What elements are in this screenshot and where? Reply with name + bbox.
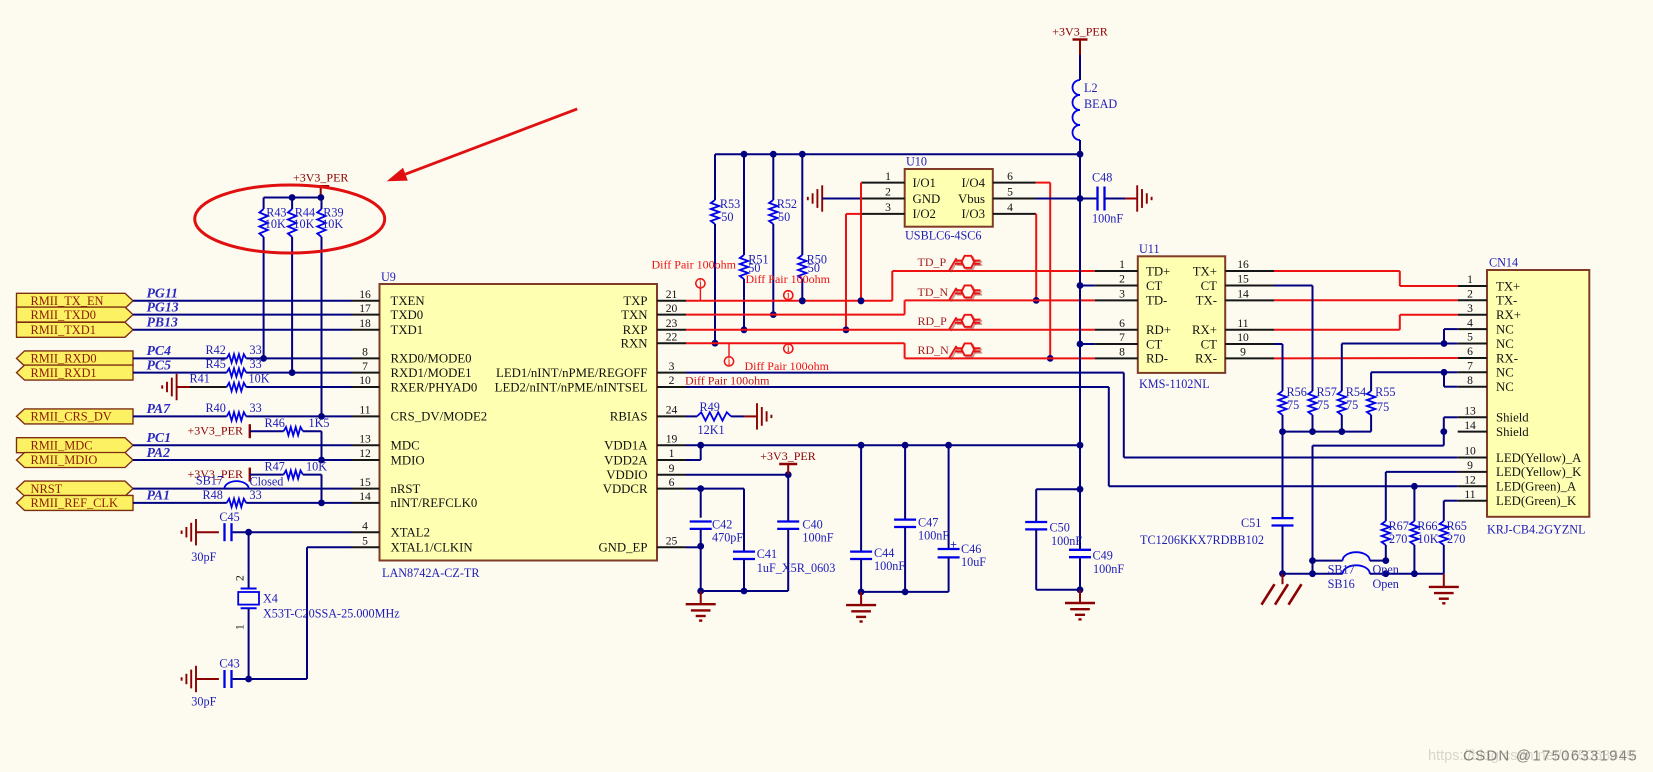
svg-text:3: 3 xyxy=(1467,302,1473,315)
svg-text:VDDIO: VDDIO xyxy=(606,468,647,482)
svg-text:C50: C50 xyxy=(1050,521,1070,535)
svg-text:11: 11 xyxy=(1237,317,1248,330)
svg-text:1: 1 xyxy=(885,170,891,183)
svg-text:33: 33 xyxy=(250,488,262,502)
svg-text:18: 18 xyxy=(359,317,371,330)
svg-text:1: 1 xyxy=(234,624,247,630)
svg-text:SB17: SB17 xyxy=(1328,563,1355,577)
svg-text:30pF: 30pF xyxy=(191,695,216,709)
svg-text:75: 75 xyxy=(1377,400,1389,414)
svg-text:PC4: PC4 xyxy=(147,343,172,358)
svg-text:R55: R55 xyxy=(1375,385,1395,399)
svg-text:C45: C45 xyxy=(219,510,239,524)
svg-text:C49: C49 xyxy=(1093,549,1113,563)
svg-text:XTAL2: XTAL2 xyxy=(391,526,431,540)
svg-text:Shield: Shield xyxy=(1496,411,1529,425)
svg-text:4: 4 xyxy=(362,519,368,532)
svg-text:24: 24 xyxy=(666,404,678,417)
svg-text:NC: NC xyxy=(1496,322,1514,336)
svg-text:nRST: nRST xyxy=(391,482,421,496)
svg-text:RMII_TXD1: RMII_TXD1 xyxy=(31,323,96,337)
svg-text:C48: C48 xyxy=(1092,171,1112,185)
svg-text:7: 7 xyxy=(1119,331,1125,344)
svg-text:TXP: TXP xyxy=(623,294,647,308)
svg-text:21: 21 xyxy=(666,288,678,301)
svg-text:100nF: 100nF xyxy=(1092,212,1123,226)
svg-text:4: 4 xyxy=(1007,201,1013,214)
svg-text:NC: NC xyxy=(1496,337,1514,351)
svg-text:RD_N: RD_N xyxy=(918,343,950,357)
svg-text:TD_N: TD_N xyxy=(918,285,949,299)
svg-text:4: 4 xyxy=(1467,316,1473,329)
svg-text:R67: R67 xyxy=(1389,519,1409,533)
svg-text:VDD2A: VDD2A xyxy=(604,453,648,467)
svg-text:1uF_X5R_0603: 1uF_X5R_0603 xyxy=(757,561,836,575)
svg-text:U11: U11 xyxy=(1139,242,1160,256)
svg-text:22: 22 xyxy=(666,330,678,343)
svg-text:C46: C46 xyxy=(961,542,981,556)
svg-text:12K1: 12K1 xyxy=(698,423,725,437)
svg-text:RMII_TX_EN: RMII_TX_EN xyxy=(31,294,104,308)
svg-text:RXD0/MODE0: RXD0/MODE0 xyxy=(391,352,472,366)
svg-text:SB16: SB16 xyxy=(1328,577,1355,591)
svg-text:X53T-C20SSA-25.000MHz: X53T-C20SSA-25.000MHz xyxy=(263,607,400,621)
svg-text:R49: R49 xyxy=(700,400,720,414)
svg-text:33: 33 xyxy=(250,357,262,371)
svg-text:10K: 10K xyxy=(322,217,343,231)
svg-text:PG11: PG11 xyxy=(147,286,178,301)
svg-text:Closed: Closed xyxy=(250,475,284,489)
svg-text:2: 2 xyxy=(1467,288,1473,301)
svg-text:TD_P: TD_P xyxy=(918,255,947,269)
svg-text:13: 13 xyxy=(1464,405,1476,418)
svg-text:270: 270 xyxy=(1447,532,1465,546)
svg-text:10: 10 xyxy=(1464,445,1476,458)
svg-text:CRS_DV/MODE2: CRS_DV/MODE2 xyxy=(391,410,488,424)
svg-text:10: 10 xyxy=(1237,331,1249,344)
svg-text:15: 15 xyxy=(1237,273,1249,286)
svg-text:RX-: RX- xyxy=(1195,352,1217,366)
svg-text:SB17: SB17 xyxy=(196,474,223,488)
svg-text:14: 14 xyxy=(1464,419,1476,432)
svg-text:RXP: RXP xyxy=(623,323,648,337)
svg-text:1: 1 xyxy=(1119,258,1125,271)
svg-text:RMII_RXD1: RMII_RXD1 xyxy=(31,366,97,380)
svg-text:RX-: RX- xyxy=(1496,351,1518,365)
svg-text:17: 17 xyxy=(359,302,371,315)
svg-text:TC1206KKX7RDBB102: TC1206KKX7RDBB102 xyxy=(1140,533,1264,547)
svg-text:I/O4: I/O4 xyxy=(962,176,986,190)
svg-text:C40: C40 xyxy=(802,517,822,531)
svg-text:R65: R65 xyxy=(1447,519,1467,533)
svg-text:TXN: TXN xyxy=(621,308,647,322)
svg-text:100nF: 100nF xyxy=(874,559,905,573)
svg-text:Vbus: Vbus xyxy=(958,192,985,206)
svg-text:BEAD: BEAD xyxy=(1084,97,1117,111)
svg-text:Open: Open xyxy=(1373,577,1399,591)
svg-text:TX-: TX- xyxy=(1496,294,1517,308)
svg-text:VDDCR: VDDCR xyxy=(603,482,648,496)
svg-text:C47: C47 xyxy=(918,516,938,530)
svg-text:CT: CT xyxy=(1146,279,1163,293)
svg-text:75: 75 xyxy=(1287,398,1299,412)
svg-text:100nF: 100nF xyxy=(918,529,949,543)
svg-text:8: 8 xyxy=(1467,374,1473,387)
svg-text:PC1: PC1 xyxy=(147,430,172,445)
svg-text:7: 7 xyxy=(362,360,368,373)
svg-text:8: 8 xyxy=(362,346,368,359)
svg-text:10K: 10K xyxy=(306,460,327,474)
svg-text:7: 7 xyxy=(1467,360,1473,373)
svg-text:RX+: RX+ xyxy=(1496,308,1521,322)
svg-text:R52: R52 xyxy=(777,197,797,211)
svg-text:LED(Yellow)_K: LED(Yellow)_K xyxy=(1496,465,1582,479)
svg-text:30pF: 30pF xyxy=(191,550,216,564)
svg-text:CSDN @17506331945: CSDN @17506331945 xyxy=(1463,748,1638,765)
svg-text:+: + xyxy=(950,538,957,552)
svg-text:C43: C43 xyxy=(219,657,239,671)
svg-text:RD-: RD- xyxy=(1146,352,1168,366)
svg-text:LED1/nINT/nPME/REGOFF: LED1/nINT/nPME/REGOFF xyxy=(496,366,647,380)
svg-text:TXEN: TXEN xyxy=(391,294,425,308)
svg-text:5: 5 xyxy=(1467,331,1473,344)
svg-text:KRJ-CB4.2GYZNL: KRJ-CB4.2GYZNL xyxy=(1487,523,1586,537)
svg-text:100nF: 100nF xyxy=(1051,534,1082,548)
svg-text:CT: CT xyxy=(1146,337,1163,351)
svg-text:R42: R42 xyxy=(206,343,226,357)
svg-text:Diff Pair 100ohm: Diff Pair 100ohm xyxy=(745,359,830,373)
svg-text:RD+: RD+ xyxy=(1146,323,1171,337)
svg-text:13: 13 xyxy=(359,432,371,445)
svg-text:C44: C44 xyxy=(874,546,894,560)
svg-text:PA2: PA2 xyxy=(147,445,171,460)
svg-text:I/O1: I/O1 xyxy=(913,176,936,190)
svg-text:nINT/REFCLK0: nINT/REFCLK0 xyxy=(391,496,478,510)
svg-text:14: 14 xyxy=(1237,288,1249,301)
svg-text:RXD1/MODE1: RXD1/MODE1 xyxy=(391,366,472,380)
svg-text:L2: L2 xyxy=(1084,81,1098,95)
svg-text:LED(Yellow)_A: LED(Yellow)_A xyxy=(1496,451,1582,465)
svg-text:RMII_CRS_DV: RMII_CRS_DV xyxy=(31,410,112,424)
svg-text:33: 33 xyxy=(250,401,262,415)
svg-text:USBLC6-4SC6: USBLC6-4SC6 xyxy=(905,229,982,243)
svg-text:RMII_MDC: RMII_MDC xyxy=(31,438,93,452)
svg-text:10K: 10K xyxy=(1418,532,1439,546)
svg-text:RXN: RXN xyxy=(620,337,647,351)
svg-text:R45: R45 xyxy=(206,357,226,371)
svg-text:C41: C41 xyxy=(757,547,777,561)
svg-text:R57: R57 xyxy=(1317,385,1337,399)
svg-text:RMII_MDIO: RMII_MDIO xyxy=(31,453,98,467)
svg-text:CN14: CN14 xyxy=(1489,256,1518,270)
svg-text:Diff Pair 100ohm: Diff Pair 100ohm xyxy=(652,258,737,272)
svg-text:5: 5 xyxy=(362,535,368,548)
svg-text:8: 8 xyxy=(1119,346,1125,359)
svg-text:TD-: TD- xyxy=(1146,294,1167,308)
svg-text:3: 3 xyxy=(669,360,675,373)
svg-text:470pF: 470pF xyxy=(712,530,743,544)
svg-text:2: 2 xyxy=(885,186,891,199)
svg-text:2: 2 xyxy=(234,575,247,581)
svg-text:CT: CT xyxy=(1201,337,1218,351)
svg-text:MDC: MDC xyxy=(391,439,420,453)
svg-text:PC5: PC5 xyxy=(147,357,172,372)
svg-text:RX+: RX+ xyxy=(1192,323,1217,337)
svg-text:14: 14 xyxy=(359,490,371,503)
svg-text:NRST: NRST xyxy=(31,482,63,496)
svg-text:X4: X4 xyxy=(263,592,278,606)
svg-text:10: 10 xyxy=(359,374,371,387)
svg-text:PA1: PA1 xyxy=(147,488,171,503)
svg-text:23: 23 xyxy=(666,317,678,330)
svg-text:R40: R40 xyxy=(206,401,226,415)
svg-text:PB13: PB13 xyxy=(147,315,179,330)
svg-text:Open: Open xyxy=(1373,563,1399,577)
svg-text:+3V3_PER: +3V3_PER xyxy=(293,170,348,184)
svg-text:1K5: 1K5 xyxy=(309,416,330,430)
svg-text:16: 16 xyxy=(359,288,371,301)
svg-text:9: 9 xyxy=(1467,459,1473,472)
svg-text:LED(Green)_K: LED(Green)_K xyxy=(1496,494,1577,508)
svg-text:50: 50 xyxy=(721,210,733,224)
svg-text:75: 75 xyxy=(1317,398,1329,412)
svg-text:25: 25 xyxy=(666,535,678,548)
svg-text:CT: CT xyxy=(1201,279,1218,293)
svg-text:19: 19 xyxy=(666,432,678,445)
svg-text:NC: NC xyxy=(1496,380,1514,394)
svg-text:RMII_TXD0: RMII_TXD0 xyxy=(31,308,96,322)
svg-text:11: 11 xyxy=(1464,488,1475,501)
svg-text:10K: 10K xyxy=(293,217,314,231)
svg-text:LED(Green)_A: LED(Green)_A xyxy=(1496,480,1577,494)
svg-text:KMS-1102NL: KMS-1102NL xyxy=(1139,377,1210,391)
svg-text:R54: R54 xyxy=(1346,385,1366,399)
svg-text:R41: R41 xyxy=(190,372,210,386)
svg-text:11: 11 xyxy=(359,404,370,417)
svg-text:+3V3_PER: +3V3_PER xyxy=(760,449,815,463)
svg-text:6: 6 xyxy=(1007,170,1013,183)
svg-text:20: 20 xyxy=(666,302,678,315)
svg-text:NC: NC xyxy=(1496,366,1514,380)
svg-text:Diff Pair 100ohm: Diff Pair 100ohm xyxy=(746,272,831,286)
svg-text:U10: U10 xyxy=(906,155,927,169)
svg-text:RXER/PHYAD0: RXER/PHYAD0 xyxy=(391,380,478,394)
svg-text:U9: U9 xyxy=(381,270,396,284)
svg-text:15: 15 xyxy=(359,476,371,489)
svg-text:1: 1 xyxy=(1467,273,1473,286)
svg-text:75: 75 xyxy=(1346,398,1358,412)
svg-text:RMII_RXD0: RMII_RXD0 xyxy=(31,352,97,366)
svg-text:C51: C51 xyxy=(1241,516,1261,530)
svg-text:16: 16 xyxy=(1237,258,1249,271)
svg-text:PA7: PA7 xyxy=(147,401,172,416)
svg-text:270: 270 xyxy=(1389,532,1407,546)
svg-text:TD+: TD+ xyxy=(1146,264,1170,278)
svg-text:TX+: TX+ xyxy=(1496,279,1520,293)
svg-text:GND_EP: GND_EP xyxy=(598,541,647,555)
svg-text:LED2/nINT/nPME/nINTSEL: LED2/nINT/nPME/nINTSEL xyxy=(495,380,648,394)
svg-text:+3V3_PER: +3V3_PER xyxy=(1052,24,1107,38)
svg-text:2: 2 xyxy=(1119,273,1125,286)
svg-text:10K: 10K xyxy=(249,372,270,386)
svg-text:6: 6 xyxy=(1119,317,1125,330)
svg-text:12: 12 xyxy=(1464,474,1476,487)
svg-text:9: 9 xyxy=(669,462,675,475)
svg-text:XTAL1/CLKIN: XTAL1/CLKIN xyxy=(391,541,473,555)
svg-text:R53: R53 xyxy=(720,197,740,211)
svg-text:Diff Pair 100ohm: Diff Pair 100ohm xyxy=(685,373,770,387)
svg-text:R48: R48 xyxy=(203,488,223,502)
svg-text:+3V3_PER: +3V3_PER xyxy=(188,423,243,437)
svg-text:12: 12 xyxy=(359,447,371,460)
svg-text:10K: 10K xyxy=(265,217,286,231)
svg-text:R46: R46 xyxy=(265,416,285,430)
svg-text:TX+: TX+ xyxy=(1193,264,1217,278)
svg-text:R56: R56 xyxy=(1287,385,1307,399)
svg-text:2: 2 xyxy=(669,374,675,387)
svg-text:3: 3 xyxy=(1119,288,1125,301)
svg-text:C42: C42 xyxy=(712,517,732,531)
svg-text:6: 6 xyxy=(1467,345,1473,358)
svg-text:5: 5 xyxy=(1007,186,1013,199)
svg-text:RD_P: RD_P xyxy=(918,314,948,328)
svg-text:I/O3: I/O3 xyxy=(962,207,985,221)
svg-text:Shield: Shield xyxy=(1496,425,1529,439)
svg-text:R47: R47 xyxy=(265,460,285,474)
svg-text:TXD1: TXD1 xyxy=(391,323,424,337)
svg-text:TX-: TX- xyxy=(1196,294,1217,308)
svg-text:100nF: 100nF xyxy=(1093,562,1124,576)
svg-text:3: 3 xyxy=(885,201,891,214)
svg-text:R66: R66 xyxy=(1417,519,1437,533)
svg-text:6: 6 xyxy=(669,476,675,489)
svg-text:10uF: 10uF xyxy=(961,555,986,569)
svg-text:50: 50 xyxy=(778,210,790,224)
svg-text:MDIO: MDIO xyxy=(391,453,425,467)
svg-text:33: 33 xyxy=(250,343,262,357)
svg-text:RBIAS: RBIAS xyxy=(610,410,648,424)
svg-text:RMII_REF_CLK: RMII_REF_CLK xyxy=(31,496,118,510)
svg-text:1: 1 xyxy=(669,447,675,460)
svg-text:100nF: 100nF xyxy=(802,530,833,544)
svg-text:GND: GND xyxy=(913,192,941,206)
svg-text:TXD0: TXD0 xyxy=(391,308,424,322)
svg-text:9: 9 xyxy=(1240,346,1246,359)
svg-text:LAN8742A-CZ-TR: LAN8742A-CZ-TR xyxy=(382,566,480,580)
svg-text:I/O2: I/O2 xyxy=(913,207,936,221)
svg-text:VDD1A: VDD1A xyxy=(604,439,648,453)
